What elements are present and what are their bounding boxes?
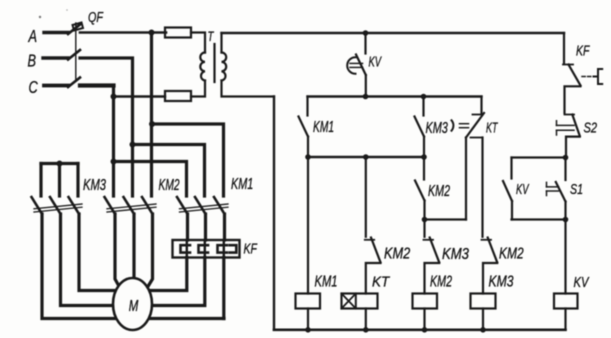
svg-text:KM1: KM1 (231, 175, 253, 193)
svg-text:KM3: KM3 (83, 175, 106, 194)
svg-text:KM1: KM1 (313, 118, 334, 136)
svg-text:S1: S1 (570, 180, 583, 197)
svg-text:KM3: KM3 (442, 246, 469, 263)
svg-text:KT: KT (372, 274, 390, 291)
svg-text:KF: KF (576, 42, 590, 59)
svg-text:QF: QF (88, 8, 104, 25)
svg-text:T: T (208, 28, 215, 44)
svg-text:KM1: KM1 (315, 271, 338, 290)
svg-text:A: A (28, 27, 37, 47)
svg-text:KM3: KM3 (489, 273, 514, 291)
svg-text:KM2: KM2 (499, 244, 524, 262)
svg-text:KT: KT (486, 119, 499, 136)
svg-text:KM2: KM2 (428, 182, 450, 200)
svg-text:KF: KF (244, 240, 258, 257)
svg-text:KM2: KM2 (430, 272, 452, 290)
svg-text:KV: KV (574, 273, 590, 290)
svg-text:KM3: KM3 (426, 119, 449, 137)
svg-text:KV: KV (369, 53, 383, 70)
svg-text:C: C (29, 78, 39, 98)
svg-text:M: M (129, 297, 139, 314)
svg-text:KV: KV (516, 181, 530, 198)
svg-text:KM2: KM2 (159, 176, 180, 194)
svg-text:S2: S2 (584, 119, 598, 136)
svg-text:KM2: KM2 (384, 245, 410, 263)
svg-text:B: B (28, 52, 37, 72)
